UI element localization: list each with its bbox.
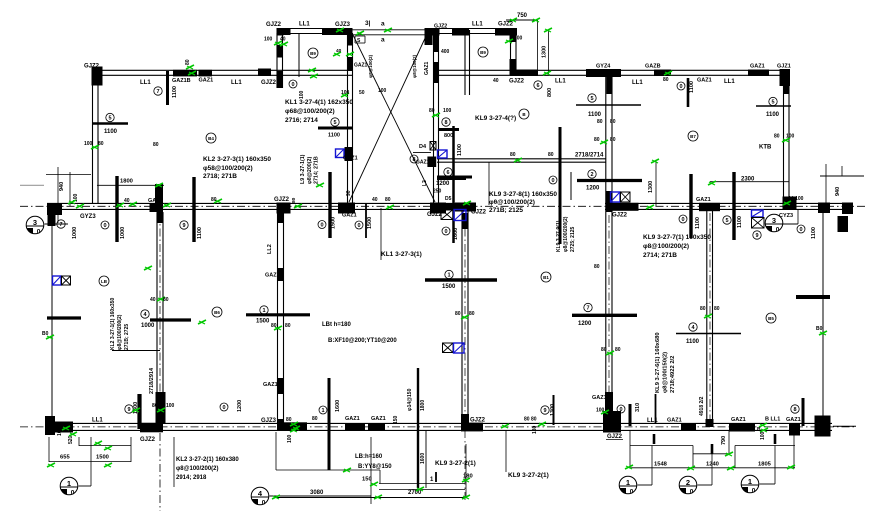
wall V x419 lower box [418, 368, 426, 488]
svg-text:LB: LB [101, 279, 108, 284]
svg-text:0: 0 [444, 229, 447, 235]
svg-text:KL9 3-27-4(?): KL9 3-27-4(?) [475, 115, 516, 122]
svg-text:1100: 1100 [328, 133, 340, 139]
svg-text:φ8@100/200(2): φ8@100/200(2) [117, 314, 123, 350]
column axis-A seg x689 [681, 424, 696, 432]
column axis-C x47 corner [47, 203, 62, 226]
svg-text:80: 80 [548, 152, 554, 158]
svg-text:GAZ1: GAZ1 [345, 416, 360, 422]
blue box stair-left [336, 149, 345, 158]
column y30 right seg a [425, 28, 440, 36]
svg-text:9: 9 [182, 223, 185, 229]
room dim 1500 left [256, 306, 270, 325]
tick bar 800 horizontal [438, 128, 459, 131]
wall V x160 faces [157, 213, 163, 423]
vertical centerline wall x160 [159, 213, 161, 423]
tick bar x453 long [452, 126, 455, 243]
tick h 1100 right [676, 333, 741, 335]
column axis-C GJZ2 x283 [277, 203, 291, 224]
svg-text:GAZ1: GAZ1 [786, 417, 801, 423]
svg-text:8: 8 [793, 407, 796, 413]
wall V x95 [93, 77, 99, 203]
wall V x710 [707, 210, 713, 420]
tick bar x139 bottom-left [137, 394, 141, 429]
svg-text:GJZ2: GJZ2 [470, 418, 486, 424]
mid D5 label [445, 196, 452, 202]
svg-text:GAZ1: GAZ1 [750, 64, 765, 70]
svg-text:GYZ4: GYZ4 [596, 64, 611, 70]
svg-text:0: 0 [630, 489, 634, 496]
svg-text:100: 100 [57, 427, 63, 436]
svg-text:100: 100 [299, 90, 305, 99]
circled 8 bottom x795 [791, 405, 799, 413]
svg-text:1240: 1240 [706, 462, 719, 468]
svg-text:5: 5 [771, 100, 774, 106]
column axis-A GJZ2 x473 [461, 414, 483, 431]
svg-text:1500: 1500 [442, 284, 456, 290]
column GAZ1-GJZ1 top-right [748, 70, 769, 77]
circled 9 bottom x545 [541, 406, 549, 414]
svg-text:80: 80 [286, 417, 292, 423]
svg-text:90: 90 [346, 190, 352, 196]
svg-text:310: 310 [635, 403, 641, 412]
dim 750 top [506, 13, 549, 74]
room dim 1500 mid [442, 270, 456, 290]
tick bar x330 axis-C [328, 172, 331, 238]
wall V x350 stairwell left [348, 33, 353, 203]
svg-text:100: 100 [596, 408, 605, 414]
svg-text:B4: B4 [208, 136, 214, 141]
column GAZ1 x280 y385 [277, 378, 284, 394]
svg-text:2718/2914: 2718/2914 [149, 367, 155, 394]
wall upper y72 right run [437, 70, 789, 75]
dim line 3080 2700 [276, 490, 466, 498]
svg-text:GJZ2: GJZ2 [84, 64, 100, 70]
svg-text:0: 0 [776, 227, 780, 234]
column D-boxes mid-stairwell [431, 158, 436, 167]
svg-text:LL2: LL2 [267, 244, 273, 254]
svg-text:80: 80 [455, 311, 461, 317]
svg-text:271B; 2725: 271B; 2725 [124, 324, 130, 350]
svg-text:1500: 1500 [256, 319, 270, 325]
svg-text:40: 40 [280, 37, 286, 43]
svg-text:1: 1 [67, 479, 71, 488]
vertical centerline wall x465 [464, 213, 466, 500]
svg-text:1100: 1100 [686, 339, 700, 345]
rotated dim 790 [721, 436, 727, 445]
tick bar thin x366 [365, 204, 367, 238]
dim 1100 top-mid [576, 94, 641, 118]
tick h short x47 y318 [47, 316, 81, 319]
column axis-C GAZ1 x347 [338, 203, 355, 214]
tick small x654 [653, 434, 656, 444]
hatch boxes x757 axis [752, 210, 765, 228]
column axis-C GJZ2 x465 [440, 203, 476, 230]
svg-text:80: 80 [312, 416, 318, 422]
svg-text:1200: 1200 [578, 321, 592, 327]
svg-text:8: 8 [444, 120, 447, 126]
column GAZB top [654, 70, 671, 77]
stair X brace diagonal 2 [349, 34, 427, 202]
svg-text:GJZ2: GJZ2 [612, 213, 628, 219]
svg-text:5: 5 [333, 120, 336, 126]
column GJZ2 y30 corner [277, 28, 291, 35]
svg-text:1100: 1100 [172, 86, 178, 98]
column axis-A seg x795 [789, 424, 800, 436]
svg-text:B1: B1 [543, 275, 549, 280]
svg-text:LL1: LL1 [647, 418, 658, 424]
column GJZ2 y30 x500 [495, 29, 517, 36]
svg-text:GAZ1: GAZ1 [667, 418, 682, 424]
circled 7 top-left [154, 87, 162, 95]
tick h 1500 left-bottom [246, 313, 310, 316]
tick bar x689 top [677, 78, 695, 107]
svg-text:800: 800 [547, 88, 553, 97]
svg-text:LBt h=180: LBt h=180 [322, 322, 352, 328]
tick bar x554 bottom [553, 395, 555, 425]
svg-text:9: 9 [543, 408, 546, 414]
svg-text:2725; 2125: 2725; 2125 [570, 226, 576, 252]
svg-text:1100: 1100 [766, 112, 780, 118]
stair X brace diagonal 1 [353, 34, 436, 202]
room label B9 left [289, 48, 318, 99]
svg-text:0: 0 [679, 84, 682, 90]
svg-text:80: 80 [185, 59, 191, 65]
underline GJZ2 br [606, 439, 623, 441]
svg-text:KL1 3-27-4(1) 162x350: KL1 3-27-4(1) 162x350 [285, 99, 353, 106]
svg-text:1: 1 [626, 478, 630, 487]
svg-text:GJZ2: GJZ2 [509, 79, 525, 85]
text 150 180 marks [362, 472, 473, 483]
svg-text:1800: 1800 [420, 400, 426, 411]
svg-text:800: 800 [444, 133, 453, 139]
svg-text:100: 100 [378, 88, 387, 94]
svg-text:1500: 1500 [331, 217, 337, 229]
circled 9 bottom x224 [220, 403, 228, 411]
room label B4 [206, 133, 216, 143]
column axis-C GJZ2 x438 [430, 203, 446, 214]
axis bubble 2 br [679, 454, 712, 496]
svg-text:100: 100 [287, 434, 293, 443]
column axis-A x47 corner [45, 416, 73, 435]
circled 8 x446 [442, 118, 450, 126]
svg-text:GJZ1: GJZ1 [777, 64, 791, 70]
dim 1300 x656 [648, 161, 656, 206]
svg-text:2914; 2918: 2914; 2918 [176, 475, 207, 481]
svg-text:GAZ1: GAZ1 [592, 395, 607, 401]
svg-text:LL1: LL1 [724, 79, 735, 85]
svg-text:B9: B9 [310, 51, 316, 56]
svg-text:KL9 3-27-9(1): KL9 3-27-9(1) [556, 220, 562, 252]
wall V x465 lower [462, 210, 468, 423]
svg-text:100: 100 [786, 134, 795, 140]
svg-text:5: 5 [590, 96, 593, 102]
leader bubble 4 [251, 437, 371, 507]
svg-text:9: 9 [127, 407, 130, 413]
svg-text:a: a [381, 37, 385, 44]
axis centerline C (main middle axis) [20, 205, 868, 207]
svg-text:GAZ1: GAZ1 [342, 213, 357, 219]
svg-text:LL1: LL1 [472, 22, 483, 28]
column axis-C GAZ1 x155 [150, 184, 164, 223]
room label B5 [766, 313, 776, 323]
tick bar x803 bottom-right [802, 398, 805, 426]
svg-text:2300: 2300 [741, 177, 755, 183]
svg-text:80: 80 [774, 134, 780, 140]
svg-text:LL100: LL100 [789, 196, 804, 202]
svg-text:1200: 1200 [237, 400, 243, 412]
svg-text:7: 7 [59, 222, 62, 228]
svg-text:100: 100 [341, 90, 350, 96]
svg-text:0: 0 [262, 500, 266, 507]
svg-text:B5: B5 [768, 316, 774, 321]
svg-text:1600: 1600 [453, 228, 459, 240]
wall V x280 stub top [277, 33, 299, 88]
tick h 1200 mid [572, 314, 637, 317]
column top-right corner [780, 69, 791, 94]
svg-text:750: 750 [517, 13, 528, 19]
svg-text:φ8@100(2): φ8@100(2) [368, 54, 373, 78]
svg-text:GAZ1: GAZ1 [199, 78, 214, 84]
svg-text:180: 180 [532, 425, 538, 434]
svg-text:LL1: LL1 [140, 80, 151, 86]
svg-text:1300: 1300 [648, 181, 654, 193]
svg-text:6: 6 [446, 170, 449, 176]
svg-text:0: 0 [222, 405, 225, 411]
kl text KL-2 a [435, 460, 476, 467]
wall axis-A faces [47, 423, 832, 430]
svg-text:80: 80 [271, 323, 277, 329]
svg-text:9: 9 [755, 233, 758, 239]
svg-text:80: 80 [615, 347, 621, 353]
vertical centerline at x160 below bottom wall [159, 433, 161, 511]
dim 1100 at x739 wall [797, 225, 817, 239]
svg-text:2700: 2700 [408, 490, 422, 496]
svg-text:CYZ3: CYZ3 [779, 213, 793, 219]
svg-text:2716; 2714: 2716; 2714 [285, 117, 318, 124]
svg-text:0: 0 [320, 223, 323, 229]
svg-text:80: 80 [385, 197, 391, 203]
svg-text:1800: 1800 [120, 179, 133, 185]
column wall-top seg c [258, 69, 271, 77]
svg-text:80: 80 [601, 347, 607, 353]
axis bubble 3 left [26, 216, 68, 235]
column stairwell-right fills [425, 33, 440, 83]
svg-text:4918 2/2: 4918 2/2 [699, 396, 705, 416]
column small below right corner [838, 216, 849, 232]
dim box bottom-left [49, 437, 131, 486]
svg-text:3|: 3| [365, 20, 371, 27]
svg-text:520: 520 [68, 435, 74, 444]
tick bar x630 bottom [629, 404, 632, 426]
svg-text:KL2 3-27-2(1) 160x380: KL2 3-27-2(1) 160x380 [176, 457, 239, 463]
svg-text:0: 0 [357, 223, 360, 229]
svg-text:φ8@100/150(2): φ8@100/150(2) [663, 352, 669, 393]
column GJZ2 top-left corner [92, 67, 103, 86]
svg-text:80: 80 [510, 152, 516, 158]
svg-text:2: 2 [590, 172, 593, 178]
svg-text:D4: D4 [419, 144, 427, 150]
svg-text:940: 940 [59, 182, 65, 191]
svg-text:KL2 3-27-3(1) 160x350: KL2 3-27-3(1) 160x350 [203, 156, 271, 163]
svg-text:B LL1: B LL1 [765, 417, 780, 423]
svg-text:LL1: LL1 [231, 80, 242, 86]
column x823 top [818, 203, 830, 214]
svg-text:6: 6 [536, 83, 539, 89]
wall top-middle y30 left segment [278, 29, 352, 34]
column axis-A seg x376 [368, 424, 385, 431]
rotated dims 100 520 [57, 427, 74, 444]
svg-text:100: 100 [760, 431, 766, 440]
svg-text:GAZ1: GAZ1 [731, 417, 746, 423]
wall axis-C faces [47, 203, 853, 209]
wall V x823 right outer [822, 210, 824, 420]
circled 11 bottom x324 [312, 406, 327, 422]
axis bubble 1 bottom-left [60, 477, 91, 496]
beam line y162 [437, 159, 606, 205]
column axis-C GAZ1 x710 [699, 203, 720, 211]
svg-text:80: 80 [469, 311, 475, 317]
svg-text:φ8@100/200(2): φ8@100/200(2) [643, 243, 689, 250]
svg-text:GAZ1: GAZ1 [263, 382, 278, 388]
svg-text:1100: 1100 [737, 216, 743, 228]
column axis-A right corner [815, 416, 831, 437]
svg-text:80: 80 [152, 403, 158, 409]
svg-text:1: 1 [447, 273, 450, 279]
svg-text:KL9 3-27-7(1) 160x350: KL9 3-27-7(1) 160x350 [643, 234, 711, 241]
svg-text:GAZ1: GAZ1 [148, 198, 163, 204]
svg-text:80: 80 [163, 297, 169, 303]
room label B6 [212, 307, 222, 317]
tick h 1500 mid [425, 278, 497, 281]
svg-text:1000: 1000 [72, 227, 78, 239]
hatch boxes left wall x52 [53, 276, 71, 285]
svg-text:GAZ1: GAZ1 [371, 416, 386, 422]
room dim 1200 x446 [433, 144, 557, 240]
svg-text:1: 1 [748, 477, 752, 486]
svg-text:KL2 3-27-1(1) 160x350: KL2 3-27-1(1) 160x350 [110, 298, 116, 350]
svg-text:1100: 1100 [197, 227, 203, 239]
column axis-A GJZ3 x290 [277, 419, 307, 431]
svg-text:D5: D5 [445, 196, 452, 202]
column axis-C right end [842, 203, 853, 215]
column stairwell-left fills [345, 33, 354, 161]
wall top-middle y30 right segment [425, 29, 517, 34]
svg-text:1100: 1100 [689, 81, 695, 93]
svg-text:1300: 1300 [550, 404, 556, 416]
svg-text:LL1: LL1 [299, 22, 310, 28]
svg-text:GJZ2: GJZ2 [498, 22, 514, 28]
svg-text:40: 40 [336, 48, 342, 54]
svg-text:LL1: LL1 [632, 80, 643, 86]
wall axis-A right tail [833, 425, 856, 427]
slab text LB bottom [355, 454, 392, 470]
svg-text:KTB: KTB [759, 145, 772, 151]
svg-text:GAZ1: GAZ1 [424, 61, 430, 75]
svg-text:2714; 271B: 2714; 271B [314, 156, 320, 184]
tick small x712 [711, 444, 714, 454]
tick h 1200 upper [577, 179, 642, 182]
svg-text:L9 3-27-1(1): L9 3-27-1(1) [300, 154, 306, 184]
svg-text:80: 80 [98, 141, 104, 147]
svg-text:1500: 1500 [367, 217, 373, 229]
svg-text:φ14@150: φ14@150 [407, 388, 413, 411]
dim 940 left [20, 167, 109, 239]
dim 1100 top-left [93, 113, 128, 135]
svg-text:B:YY8@150: B:YY8@150 [358, 464, 392, 470]
svg-text:80: 80 [594, 137, 600, 143]
svg-text:50: 50 [359, 90, 365, 96]
svg-text:150: 150 [393, 415, 399, 424]
box lines bottom-right [629, 430, 795, 468]
column axis-A seg x355 [345, 424, 365, 431]
svg-text:80: 80 [594, 264, 600, 270]
column axis-C x786 [783, 197, 797, 210]
svg-text:655: 655 [60, 455, 70, 461]
svg-text:B7: B7 [690, 134, 696, 139]
wall V x436 stairwell right [434, 33, 439, 203]
svg-text:100: 100 [84, 141, 93, 147]
svg-text:80: 80 [153, 142, 159, 148]
wall V x280 lower [278, 210, 284, 423]
svg-text:GJZ3: GJZ3 [261, 418, 277, 424]
column x513 stub fills [510, 33, 517, 75]
dim texts 1548 1240 1805 [654, 462, 772, 468]
svg-text:GYZ3: GYZ3 [80, 214, 96, 220]
svg-text:80: 80 [610, 137, 616, 143]
svg-text:1548: 1548 [654, 462, 668, 468]
stair top chord lines [352, 30, 433, 35]
svg-text:940: 940 [835, 187, 841, 196]
svg-text:40: 40 [372, 197, 378, 203]
svg-text:φ68@100/200(2): φ68@100/200(2) [285, 108, 335, 115]
svg-text:80: 80 [429, 108, 435, 114]
svg-text:0: 0 [799, 227, 802, 233]
svg-text:0: 0 [752, 488, 756, 495]
column y30 right seg b [452, 28, 469, 36]
svg-text:150: 150 [362, 477, 372, 483]
svg-text:1100: 1100 [104, 129, 118, 135]
tick bar x194 [192, 177, 195, 242]
svg-text:0: 0 [103, 223, 106, 229]
dim texts at bars x117 x194 [120, 221, 203, 239]
section letters a-a [381, 21, 385, 44]
svg-text:LL1: LL1 [555, 79, 566, 85]
svg-text:80: 80 [211, 197, 217, 203]
wall V x609 [606, 76, 612, 420]
svg-text:GJZ2: GJZ2 [427, 212, 443, 218]
hatch boxes near GJZ2 x465 [441, 210, 466, 221]
wall V x467 upper stub [465, 30, 470, 95]
D4 boxes stair-right [410, 142, 447, 168]
svg-text:100: 100 [443, 108, 452, 114]
svg-text:80: 80 [285, 323, 291, 329]
dim 1100 top-right [756, 97, 791, 118]
wall upper y72 left run [92, 70, 352, 75]
svg-text:1200: 1200 [586, 186, 600, 192]
svg-text:80: 80 [663, 77, 669, 83]
column wall-top seg a [173, 70, 197, 77]
svg-text:1100: 1100 [811, 227, 817, 239]
svg-text:3080: 3080 [310, 490, 324, 496]
column stub x280 upper [277, 29, 284, 88]
svg-text:790: 790 [721, 436, 727, 445]
svg-text:80: 80 [597, 119, 603, 125]
svg-text:5: 5 [725, 218, 728, 224]
room label B8 [519, 109, 529, 119]
wall V x786 [784, 77, 790, 203]
room dim 1200 upper [586, 170, 600, 192]
